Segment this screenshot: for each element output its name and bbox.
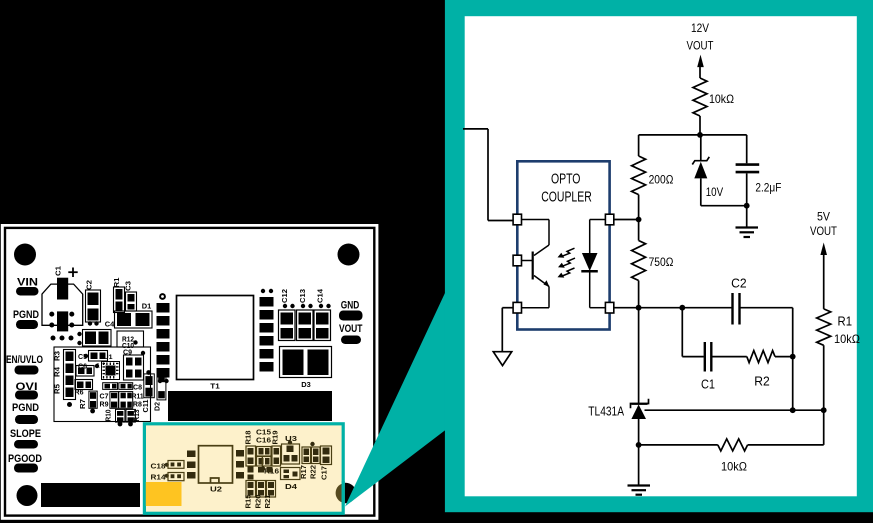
svg-text:R6: R6 xyxy=(75,390,84,397)
C1 capacitor outline xyxy=(42,284,83,325)
svg-text:PGND: PGND xyxy=(13,309,39,321)
svg-text:C16: C16 xyxy=(256,436,271,445)
svg-text:R19: R19 xyxy=(271,431,280,445)
middle copper bar xyxy=(168,391,332,421)
svg-text:D3: D3 xyxy=(301,380,311,389)
C1 pad top xyxy=(57,278,68,300)
svg-text:R1: R1 xyxy=(838,315,853,329)
D2 component xyxy=(157,373,166,400)
svg-text:C2: C2 xyxy=(731,276,747,290)
wire zener bottom xyxy=(701,205,747,207)
C17 component xyxy=(321,446,332,465)
opto LED xyxy=(590,219,606,221)
pad grid right of U1 xyxy=(124,355,144,380)
svg-text:R22: R22 xyxy=(309,465,318,479)
svg-text:GND: GND xyxy=(341,300,360,312)
svg-text:R17: R17 xyxy=(299,465,308,479)
svg-text:VOUT: VOUT xyxy=(687,39,715,53)
svg-text:TL431A: TL431A xyxy=(588,405,624,419)
highlight yellow box xyxy=(144,424,343,514)
wire left drop to 200 xyxy=(638,135,640,156)
node ref/right dot xyxy=(790,407,796,413)
teal callout wedge xyxy=(345,278,452,507)
svg-text:T1: T1 xyxy=(210,382,220,391)
svg-text:R21: R21 xyxy=(263,495,272,509)
svg-text:C14: C14 xyxy=(315,288,324,303)
svg-text:R3: R3 xyxy=(55,351,62,361)
TL431 ref wire xyxy=(645,409,824,411)
opto light arrows xyxy=(562,248,574,256)
node anode dot xyxy=(636,442,642,448)
R-pair below C6 xyxy=(75,380,93,390)
capacitor C2 xyxy=(731,293,733,325)
resistor R1 xyxy=(817,309,831,345)
C1 vias xyxy=(49,312,54,317)
svg-text:C11: C11 xyxy=(143,399,150,412)
svg-text:C13: C13 xyxy=(298,289,307,303)
svg-text:R18: R18 xyxy=(244,431,253,445)
svg-text:R1: R1 xyxy=(112,278,121,288)
svg-text:R5: R5 xyxy=(55,384,62,394)
svg-text:C12: C12 xyxy=(280,289,289,303)
svg-text:D2: D2 xyxy=(155,402,162,411)
2x2 grid part xyxy=(119,392,133,409)
opto pins xyxy=(513,214,521,225)
bottom feedback 10k resistor xyxy=(639,444,718,446)
svg-text:PGND: PGND xyxy=(12,402,39,414)
svg-text:SLOPE: SLOPE xyxy=(10,428,41,440)
opto coupler box U1 xyxy=(517,161,609,329)
svg-text:C8: C8 xyxy=(133,385,142,392)
resistor 750 xyxy=(638,220,640,241)
svg-text:C17: C17 xyxy=(320,466,329,480)
resistor R2 xyxy=(747,351,775,363)
schematic white area xyxy=(465,16,857,496)
node R2 out dot xyxy=(790,354,796,360)
svg-text:VOUT: VOUT xyxy=(339,323,363,335)
svg-text:200Ω: 200Ω xyxy=(649,172,674,186)
U2 left pads xyxy=(187,451,196,458)
PCB outline border xyxy=(5,228,374,516)
svg-text:C1: C1 xyxy=(54,266,63,276)
C3 component xyxy=(126,292,137,311)
C1 pad bottom xyxy=(57,311,68,331)
capacitor C1 xyxy=(704,342,706,372)
svg-text:10kΩ: 10kΩ xyxy=(721,460,747,474)
capacitor 2.2uF xyxy=(746,135,748,163)
svg-text:OPTO: OPTO xyxy=(551,171,581,188)
node ref/R1 dot xyxy=(821,407,827,413)
wire mid bus to C2 xyxy=(614,307,733,309)
phototransistor xyxy=(522,219,550,221)
svg-text:R14: R14 xyxy=(151,473,167,482)
svg-text:EN/UVLO: EN/UVLO xyxy=(6,354,43,366)
mounting hole top-right xyxy=(338,244,360,266)
12V arrow xyxy=(697,55,704,68)
node 200/750 dot xyxy=(636,217,642,223)
mounting hole top-left xyxy=(14,244,36,266)
PCB board card xyxy=(1,224,379,520)
schematic teal frame xyxy=(445,0,873,512)
svg-text:C3: C3 xyxy=(124,281,133,291)
svg-text:PGOOD: PGOOD xyxy=(8,453,42,465)
resistor 10k top xyxy=(693,78,707,116)
svg-text:5V: 5V xyxy=(817,210,830,224)
R17 R22 components xyxy=(302,447,311,464)
orange square xyxy=(146,482,182,506)
svg-text:COUPLER: COUPLER xyxy=(541,189,592,206)
svg-text:1: 1 xyxy=(96,363,100,370)
U2 IC xyxy=(199,446,233,483)
C2 component xyxy=(86,290,101,322)
R15 R20 R21 components xyxy=(248,467,254,473)
mid vertical part xyxy=(110,392,118,409)
cluster castellated pads right xyxy=(159,293,166,300)
U2 right pads xyxy=(236,450,244,457)
5V arrow xyxy=(820,243,827,256)
node 12V rail dot xyxy=(697,132,703,138)
C11 component xyxy=(146,370,151,375)
T1 left castellated pads xyxy=(261,289,265,293)
svg-text:10kΩ: 10kΩ xyxy=(709,92,734,106)
svg-text:10V: 10V xyxy=(706,185,723,199)
svg-text:C7: C7 xyxy=(100,393,109,400)
svg-text:12V: 12V xyxy=(691,21,709,35)
wire C1 branch xyxy=(681,308,683,357)
svg-text:R4: R4 xyxy=(55,367,62,377)
svg-text:VOUT: VOUT xyxy=(810,224,838,238)
mounting hole bottom-left xyxy=(17,485,38,506)
bottom-left copper bar xyxy=(41,483,140,507)
two 2-pad parts row y=383 xyxy=(103,383,118,390)
svg-text:C18: C18 xyxy=(151,462,166,471)
wire horizontal rail y135 xyxy=(639,134,747,136)
node C1 tap dot xyxy=(679,305,685,311)
wire 10k to node xyxy=(699,116,701,135)
D3 diode pair xyxy=(280,347,332,378)
svg-text:R7: R7 xyxy=(80,399,87,409)
svg-text:C4: C4 xyxy=(105,320,115,329)
wire opto to node xyxy=(614,219,639,221)
T1 transformer xyxy=(177,296,254,380)
svg-text:R8: R8 xyxy=(133,401,142,408)
svg-text:D1: D1 xyxy=(142,302,152,311)
R1 component xyxy=(114,287,125,313)
resistor 200 xyxy=(632,156,646,195)
D4 component xyxy=(281,468,301,480)
zener diode 10V xyxy=(700,135,702,161)
wire left entry xyxy=(463,128,488,130)
svg-text:D4: D4 xyxy=(285,482,298,491)
C1 plus sign xyxy=(72,268,74,278)
svg-text:R20: R20 xyxy=(254,495,263,509)
wire right drop xyxy=(792,308,794,411)
svg-text:R10: R10 xyxy=(105,409,112,421)
svg-text:750Ω: 750Ω xyxy=(649,255,674,269)
svg-text:U1: U1 xyxy=(104,354,113,361)
control cluster outline xyxy=(54,347,151,422)
R16 component xyxy=(261,456,263,467)
svg-text:U2: U2 xyxy=(210,485,222,494)
wire emitter to gnd xyxy=(502,307,513,309)
svg-text:VIN: VIN xyxy=(17,277,38,289)
svg-text:R11: R11 xyxy=(132,393,144,400)
ground TL431 xyxy=(638,445,640,485)
svg-text:10kΩ: 10kΩ xyxy=(834,332,860,346)
svg-text:R9: R9 xyxy=(100,401,109,408)
node mid bus dot xyxy=(636,305,642,311)
node cap bottom dot xyxy=(744,203,750,209)
C12 C13 C14 capacitors xyxy=(279,310,296,341)
ground cap xyxy=(736,226,759,228)
svg-text:C1: C1 xyxy=(701,378,715,392)
svg-text:R15: R15 xyxy=(244,495,253,509)
svg-text:R2: R2 xyxy=(754,375,770,389)
svg-text:C2: C2 xyxy=(85,280,94,290)
open ground triangle xyxy=(493,352,511,366)
svg-text:2.2μF: 2.2μF xyxy=(755,180,781,194)
